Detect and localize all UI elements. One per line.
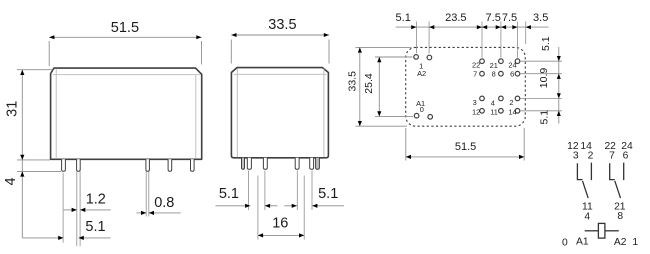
svg-text:A2: A2	[614, 237, 627, 248]
schematic contact 2 NO terminal	[623, 163, 625, 181]
schematic contact 2 movable blade	[615, 181, 621, 198]
end view pin 1 (back row, shaded)	[242, 158, 245, 169]
svg-text:5.1: 5.1	[318, 186, 338, 202]
bottom view coil pin A1 circle b	[428, 115, 433, 120]
svg-text:33.5: 33.5	[346, 71, 358, 92]
svg-text:1.2: 1.2	[86, 191, 106, 207]
end view: 16 dimension line and arrows	[258, 234, 304, 236]
svg-text:51.5: 51.5	[455, 141, 476, 153]
svg-text:4: 4	[491, 98, 495, 107]
bottom view contact pin 22 circle	[480, 59, 485, 64]
svg-text:7.5: 7.5	[486, 12, 501, 24]
side view relay body	[51, 68, 202, 159]
schematic contact 1 movable blade	[583, 181, 589, 198]
bottom view contact pin 12 circle	[480, 109, 485, 114]
svg-text:3.5: 3.5	[533, 12, 548, 24]
svg-text:7.5: 7.5	[502, 12, 517, 24]
svg-text:0: 0	[420, 105, 424, 114]
svg-text:14: 14	[508, 108, 516, 117]
svg-text:A2: A2	[417, 69, 426, 78]
side view body inner top edge line	[53, 74, 202, 76]
end view: 33.5 width dimension line	[231, 34, 329, 36]
end view: left 5.1 dimension line and arrows	[216, 205, 251, 207]
svg-text:7: 7	[609, 151, 615, 162]
bottom view: 25.4 dimension line	[378, 57, 380, 116]
svg-text:A1: A1	[576, 237, 589, 248]
svg-text:6: 6	[623, 151, 629, 162]
svg-text:22: 22	[472, 61, 480, 70]
side view: 31/4 dimension vertical line	[21, 70, 23, 238]
svg-text:12: 12	[472, 107, 480, 116]
bottom view: 51.5 extension lines	[405, 128, 407, 161]
side view: 51.5 width dimension extension lines	[48, 41, 50, 66]
side view: 51.5 width dimension line	[49, 36, 201, 38]
svg-text:0.8: 0.8	[154, 195, 174, 211]
schematic contact 1 NO terminal	[590, 163, 592, 181]
svg-text:4: 4	[584, 211, 590, 222]
side view: 0.8 pin width extension lines	[145, 171, 147, 216]
svg-text:6: 6	[510, 69, 514, 78]
svg-text:7: 7	[473, 69, 477, 78]
svg-text:3: 3	[473, 98, 477, 107]
bottom view contact pin 11 circle	[499, 109, 504, 114]
bottom view contact pin 4 circle	[499, 96, 504, 101]
end view body inner right edge line	[323, 69, 325, 158]
side view pin 1	[62, 159, 66, 171]
svg-text:2: 2	[509, 98, 513, 107]
end view: right 5.1 extension lines	[296, 171, 298, 211]
bottom view: right dimension line 5.1/10.9/5.1	[558, 47, 560, 124]
svg-text:1: 1	[632, 237, 638, 248]
svg-text:5.1: 5.1	[396, 12, 411, 24]
side view: 31 height dimension extension lines	[17, 69, 53, 71]
side view: 5.1 pin pitch extension line	[62, 173, 64, 243]
end view body inner top edge line	[234, 73, 327, 75]
bottom view: top dimension line 5.1/23.5/7.5/7.5/3.5	[396, 26, 549, 28]
svg-text:8: 8	[492, 69, 496, 78]
end view pin 6 (back row, shaded)	[316, 158, 320, 169]
svg-text:10.9: 10.9	[538, 68, 550, 89]
schematic coil wire left	[585, 230, 599, 232]
end view pin 5	[310, 158, 314, 169]
svg-text:16: 16	[272, 215, 288, 231]
svg-text:23.5: 23.5	[445, 12, 466, 24]
svg-text:25.4: 25.4	[363, 73, 375, 94]
end view: 33.5 width dimension extension lines	[230, 40, 232, 64]
side view pin 5	[191, 159, 195, 171]
bottom view: top dimension extension lines	[415, 22, 417, 54]
svg-text:2: 2	[588, 151, 594, 162]
svg-text:4: 4	[3, 177, 19, 185]
end view pin 4	[295, 158, 299, 169]
schematic coil rectangle	[598, 223, 605, 238]
bottom view: left 33.5 extension lines	[356, 46, 412, 48]
svg-text:5.1: 5.1	[540, 36, 552, 51]
schematic contact 1 NC terminal (L-shape)	[577, 163, 582, 179]
bottom view contact pin 6 circle	[515, 71, 520, 76]
bottom view contact pin 8 circle	[499, 71, 504, 76]
svg-text:5.1: 5.1	[219, 186, 239, 202]
svg-text:31: 31	[4, 101, 20, 117]
bottom view contact pin 7 circle	[480, 71, 485, 76]
svg-text:5.1: 5.1	[539, 110, 551, 125]
side view pin 2	[77, 159, 81, 171]
side view: 0.8 dimension line and arrows	[137, 212, 147, 214]
end view: right 5.1 dimension line and arrows	[284, 205, 297, 207]
side view: 1.2 pin width extension lines	[76, 171, 78, 213]
svg-text:3: 3	[573, 151, 579, 162]
side view: 1.2 dimension line and arrows	[64, 209, 77, 211]
bottom view: left 33.5 dimension line	[359, 47, 361, 126]
side view: 5.1 dimension line and arrows	[22, 237, 63, 239]
schematic contact 2 NC terminal (L-shape)	[610, 163, 615, 179]
bottom view contact pin 24 circle	[515, 59, 520, 64]
bottom view coil pin A2 circle b	[427, 55, 432, 60]
bottom view contact pin 21 circle	[499, 59, 504, 64]
side view pin 3	[146, 159, 150, 171]
bottom view contact pin 3 circle	[480, 96, 485, 101]
svg-text:5.1: 5.1	[85, 219, 105, 235]
side view body inner left edge line	[55, 69, 57, 159]
end view pin 3	[263, 158, 267, 169]
end view pin 2	[247, 158, 251, 169]
side view: 4 dimension extension line at pin bottom	[17, 170, 61, 172]
bottom view: right extension lines	[521, 60, 563, 62]
svg-text:33.5: 33.5	[268, 17, 296, 33]
end view: left 5.1 extension lines	[248, 171, 250, 211]
bottom view outline (dashed rounded rect)	[406, 47, 526, 126]
bottom view coil pin A2 circle a	[414, 55, 419, 60]
bottom view: 51.5 dimension line	[406, 156, 524, 158]
bottom view contact pin 14 circle	[515, 109, 520, 114]
svg-text:8: 8	[617, 211, 623, 222]
side view pin 4	[168, 159, 172, 171]
end view relay body	[231, 68, 328, 158]
end view: 16 extension lines	[257, 176, 259, 240]
bottom view: 25.4 extension lines	[375, 56, 413, 58]
svg-text:51.5: 51.5	[111, 20, 139, 36]
schematic coil wire right	[605, 230, 619, 232]
bottom view coil pin A1 circle a	[414, 113, 419, 118]
svg-text:11: 11	[490, 108, 498, 117]
end view body inner left edge line	[236, 69, 238, 158]
side view body inner right edge line	[195, 75, 197, 159]
bottom view contact pin 2 circle	[515, 96, 520, 101]
svg-text:0: 0	[562, 237, 568, 248]
